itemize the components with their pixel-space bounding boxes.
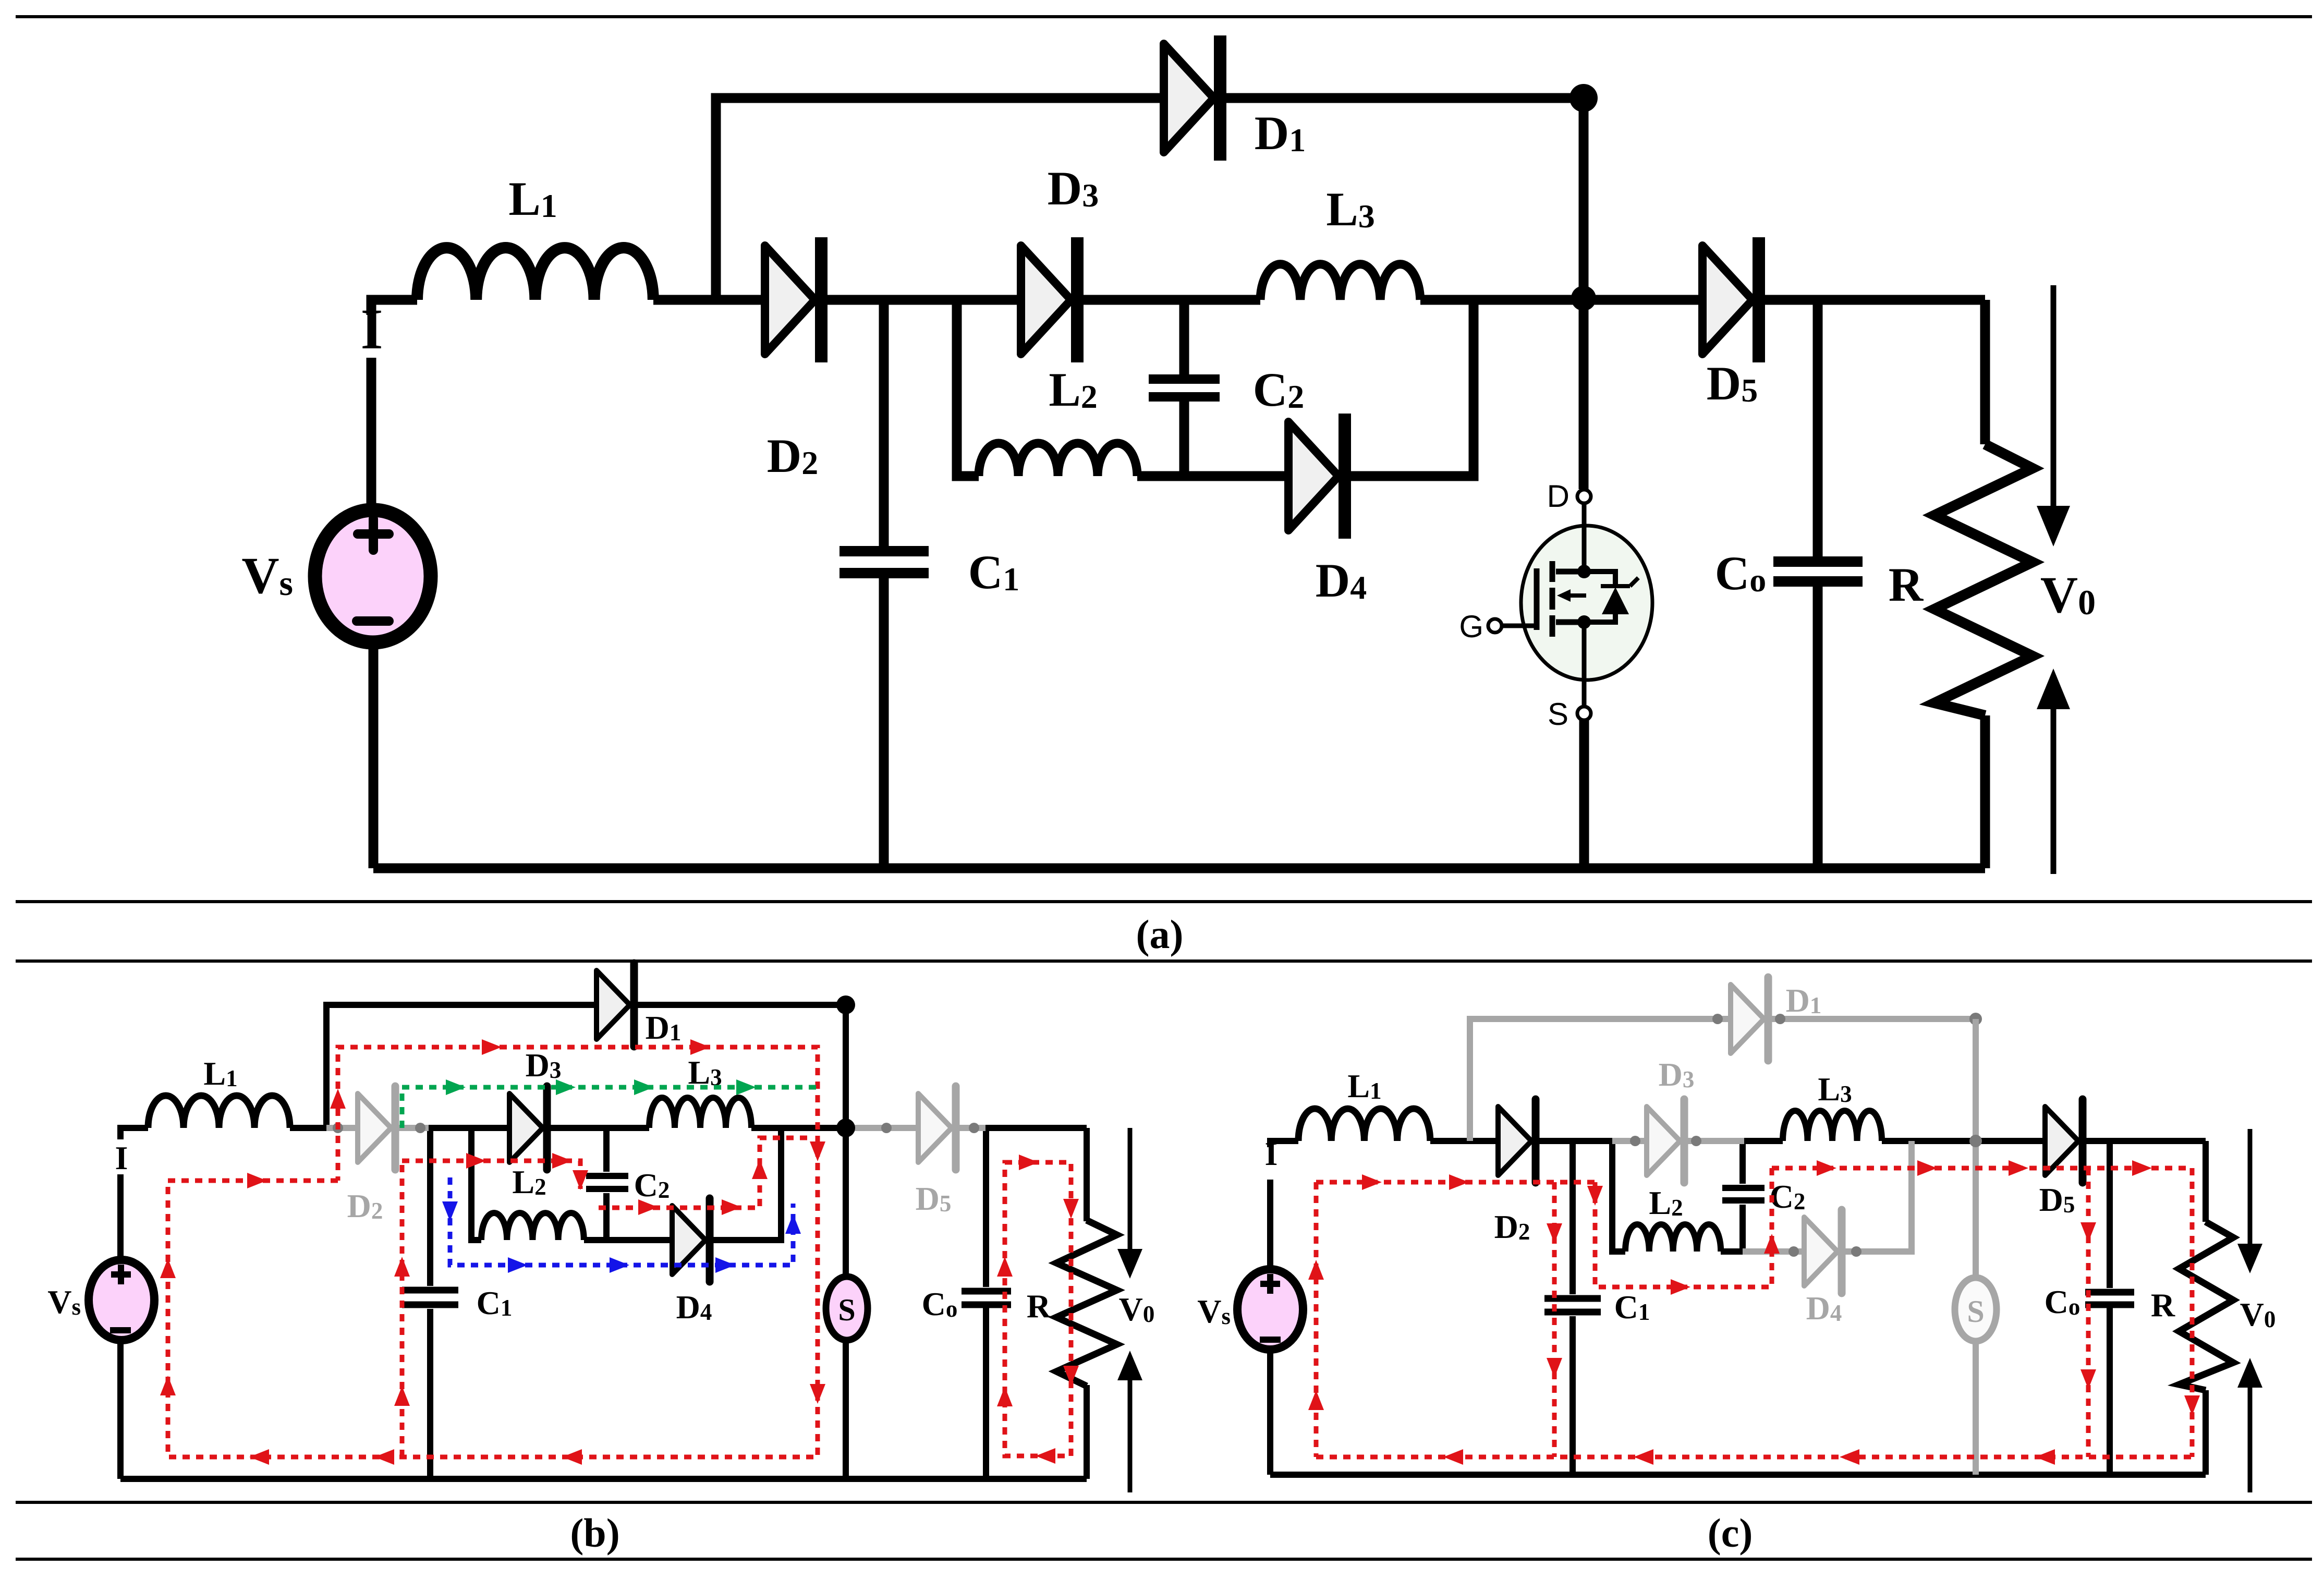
wire drop to L2 c bbox=[1612, 1141, 1625, 1252]
diode D5 c bbox=[2045, 1099, 2083, 1183]
svg-text:L1: L1 bbox=[203, 1055, 237, 1092]
wire D5 to R corner c bbox=[2080, 1138, 2206, 1144]
svg-text:R: R bbox=[1889, 558, 1924, 611]
svg-text:(a): (a) bbox=[1136, 912, 1184, 957]
svg-text:L3: L3 bbox=[1818, 1071, 1852, 1108]
wire switch lower b bbox=[843, 1337, 849, 1479]
current loop red L2-C2 c bbox=[1595, 1168, 1772, 1287]
capacitor C2 b bbox=[586, 1176, 628, 1189]
diode D2 bbox=[765, 237, 821, 362]
svg-text:V0: V0 bbox=[1119, 1291, 1155, 1328]
wire L1 to D3 (through D2) bbox=[653, 295, 1021, 305]
inductor L3 b bbox=[649, 1098, 751, 1128]
arrow V0 up b bbox=[1117, 1351, 1142, 1492]
wire C2 lower c bbox=[1739, 1205, 1746, 1252]
node junction top bbox=[1569, 84, 1598, 112]
svg-text:Vs: Vs bbox=[1197, 1293, 1231, 1330]
svg-text:C1: C1 bbox=[477, 1284, 513, 1321]
wire Co lower c bbox=[2107, 1308, 2113, 1475]
node top junction b bbox=[836, 995, 855, 1014]
wire grey D2 segment b bbox=[326, 1125, 429, 1131]
capacitor C1 c bbox=[1544, 1298, 1601, 1312]
wire R lower lead b bbox=[1084, 1385, 1090, 1479]
current loop red input c bbox=[1316, 1182, 2192, 1457]
node grey main junction c bbox=[1969, 1135, 1982, 1147]
wire C1 upper bbox=[879, 300, 889, 546]
wire L3 to R branch (through D5) bbox=[1420, 295, 1985, 305]
inductor L3 c bbox=[1783, 1111, 1882, 1141]
wire riser to D1 rail b bbox=[326, 1005, 846, 1128]
arrow V0 down c bbox=[2237, 1129, 2262, 1273]
wire L2 to C2 c bbox=[1721, 1248, 1743, 1255]
svg-text:D4: D4 bbox=[676, 1289, 712, 1326]
svg-text:L2: L2 bbox=[1649, 1184, 1683, 1221]
svg-text:D4: D4 bbox=[1316, 554, 1367, 607]
svg-text:L1: L1 bbox=[1347, 1067, 1381, 1104]
wire Vs bottom bbox=[369, 642, 379, 868]
wire L1 to D2 and grey node c bbox=[1430, 1138, 1612, 1144]
diode D1 b bbox=[597, 963, 634, 1047]
svg-text:Vs: Vs bbox=[47, 1283, 81, 1320]
wire grey D5 segment b bbox=[850, 1125, 985, 1131]
svg-text:(c): (c) bbox=[1708, 1510, 1753, 1556]
wire Vs bottom b bbox=[117, 1339, 124, 1479]
wire L2 branch down bbox=[957, 300, 979, 476]
wire Vs bottom c bbox=[1267, 1349, 1273, 1475]
wire C2 lower b bbox=[603, 1193, 610, 1240]
inductor L2 bbox=[979, 443, 1137, 476]
arrow V0 down bbox=[2037, 285, 2070, 546]
wire grey D3 segment c bbox=[1612, 1138, 1744, 1144]
svg-text:Co: Co bbox=[1715, 546, 1766, 600]
node mid junction b bbox=[836, 1119, 855, 1137]
wire I stub b bbox=[120, 1128, 148, 1139]
diode D3 b bbox=[509, 1086, 547, 1170]
capacitor C1 bbox=[839, 551, 929, 573]
svg-text:D: D bbox=[1547, 479, 1569, 514]
diode D1 bbox=[1164, 35, 1220, 161]
svg-text:G: G bbox=[1459, 609, 1483, 644]
svg-text:D3: D3 bbox=[1659, 1056, 1695, 1093]
wire switch upper b bbox=[843, 1128, 849, 1279]
diode D4 b bbox=[672, 1198, 710, 1282]
svg-text:L3: L3 bbox=[1326, 183, 1374, 236]
svg-text:L2: L2 bbox=[1049, 363, 1097, 416]
current loop red C1 b bbox=[400, 1161, 405, 1457]
wire R lower lead c bbox=[2203, 1390, 2209, 1475]
wire C2 upper bbox=[1179, 300, 1189, 374]
bottom rail bbox=[373, 864, 1985, 873]
wire L2 to D4 loop up bbox=[1137, 300, 1474, 476]
svg-text:(b): (b) bbox=[570, 1510, 619, 1556]
resistor R bbox=[1934, 444, 2033, 715]
wire I to Vs bbox=[367, 358, 376, 504]
wire C2 lower bbox=[1179, 401, 1189, 476]
wire R upper lead b bbox=[1084, 1128, 1090, 1221]
svg-text:C2: C2 bbox=[1253, 363, 1304, 416]
inductor L3 bbox=[1260, 264, 1420, 300]
wire I to Vs c bbox=[1267, 1180, 1273, 1270]
wire L3 to D5 c bbox=[1882, 1138, 2045, 1144]
current loop red main b bbox=[168, 1047, 818, 1457]
svg-text:C1: C1 bbox=[968, 545, 1019, 599]
switch S b bbox=[826, 1277, 868, 1340]
svg-text:I: I bbox=[361, 297, 383, 361]
wire C2 upper c bbox=[1739, 1141, 1746, 1184]
wire L2 branch b bbox=[471, 1128, 481, 1240]
wire D5 out to R corner b bbox=[982, 1125, 1087, 1131]
svg-text:C2: C2 bbox=[634, 1167, 670, 1204]
diode D1 greyed c bbox=[1712, 977, 1982, 1061]
wire Co upper b bbox=[983, 1128, 989, 1287]
svg-text:D5: D5 bbox=[2039, 1181, 2075, 1218]
inductor L1 c bbox=[1298, 1109, 1430, 1141]
wire node to MOSFET drain bbox=[1579, 98, 1589, 489]
capacitor Co c bbox=[2085, 1292, 2134, 1305]
wire C2 upper b bbox=[603, 1128, 610, 1172]
source Vs bbox=[315, 510, 431, 642]
svg-text:D1: D1 bbox=[1786, 982, 1822, 1019]
wire grey switch branch c bbox=[1973, 1019, 1979, 1475]
wire D2 out to L3 b bbox=[427, 1125, 649, 1131]
current loop red output c bbox=[1772, 1168, 2192, 1457]
diode D5 greyed b bbox=[881, 1086, 979, 1170]
node junction mid bbox=[1571, 286, 1596, 311]
svg-text:D5: D5 bbox=[1707, 357, 1758, 410]
wire I stub c bbox=[1270, 1141, 1298, 1147]
svg-text:I: I bbox=[115, 1139, 128, 1176]
arrow V0 down b bbox=[1117, 1128, 1142, 1279]
wire Co upper bbox=[1813, 300, 1823, 557]
capacitor C2 c bbox=[1722, 1188, 1765, 1200]
svg-text:D3: D3 bbox=[526, 1047, 562, 1084]
switch S greyed c bbox=[1955, 1278, 1997, 1341]
svg-text:L2: L2 bbox=[512, 1163, 546, 1200]
bottom rail c bbox=[1270, 1472, 2206, 1478]
inductor L2 b bbox=[481, 1213, 584, 1240]
source Vs b bbox=[89, 1260, 154, 1340]
svg-text:D2: D2 bbox=[347, 1187, 383, 1224]
wire L3 to junction b bbox=[751, 1125, 853, 1131]
svg-text:V0: V0 bbox=[2040, 566, 2096, 624]
svg-text:R: R bbox=[1027, 1288, 1051, 1325]
wire L1 right to riser b bbox=[290, 1125, 328, 1131]
wire Co upper c bbox=[2107, 1141, 2113, 1288]
wire D3 to L3 bbox=[1072, 295, 1260, 305]
inductor L1 bbox=[417, 248, 653, 300]
wire MOSFET source to rail bbox=[1579, 720, 1589, 868]
svg-text:L1: L1 bbox=[508, 172, 557, 225]
wire C1 upper c bbox=[1569, 1141, 1576, 1294]
capacitor C2 bbox=[1149, 379, 1220, 397]
wire C1 lower b bbox=[427, 1309, 433, 1479]
wire I stub bbox=[371, 300, 417, 315]
inductor L2 c bbox=[1625, 1224, 1721, 1252]
svg-text:V0: V0 bbox=[2240, 1296, 2276, 1333]
wire C1 lower c bbox=[1569, 1316, 1576, 1475]
wire grey riser and D1 rail c bbox=[1470, 1019, 1976, 1141]
source Vs c bbox=[1237, 1269, 1303, 1350]
svg-text:D2: D2 bbox=[1494, 1208, 1530, 1245]
current loop red output b bbox=[1005, 1162, 1071, 1456]
diode D2 c bbox=[1498, 1099, 1536, 1183]
arrow V0 up bbox=[2037, 669, 2070, 874]
svg-text:S: S bbox=[838, 1293, 855, 1327]
wire branch up to D1 rail bbox=[716, 98, 1584, 300]
svg-text:D3: D3 bbox=[1048, 162, 1099, 215]
wire Co lower bbox=[1813, 586, 1823, 868]
current loop green b bbox=[402, 1087, 820, 1128]
svg-text:D1: D1 bbox=[1255, 106, 1306, 160]
current loop red C2-D4 b bbox=[402, 1138, 813, 1208]
capacitor Co bbox=[1773, 562, 1863, 581]
diode D5 bbox=[1702, 237, 1759, 362]
inductor L1 b bbox=[148, 1096, 290, 1128]
svg-text:S: S bbox=[1967, 1294, 1984, 1329]
svg-text:C2: C2 bbox=[1770, 1178, 1806, 1215]
svg-text:Vs: Vs bbox=[241, 546, 293, 604]
diode D4 bbox=[1288, 414, 1345, 539]
wire R upper lead c bbox=[2203, 1141, 2209, 1222]
svg-text:D4: D4 bbox=[1806, 1290, 1842, 1327]
wire junction drop b bbox=[843, 1005, 849, 1128]
wire I to Vs b bbox=[117, 1174, 124, 1261]
wire Co lower b bbox=[983, 1308, 989, 1479]
wire C1 upper b bbox=[427, 1128, 433, 1286]
wire C1 lower bbox=[879, 578, 889, 868]
svg-text:D1: D1 bbox=[646, 1009, 682, 1046]
capacitor Co b bbox=[962, 1291, 1011, 1305]
svg-text:Co: Co bbox=[922, 1285, 958, 1322]
svg-text:D2: D2 bbox=[767, 429, 818, 482]
arrow V0 up c bbox=[2237, 1358, 2262, 1492]
transistor S (MOSFET) bbox=[1488, 490, 1652, 720]
wire R lower lead bbox=[1980, 715, 1990, 868]
diode D2 greyed b bbox=[333, 1086, 425, 1170]
capacitor C1 b bbox=[402, 1290, 458, 1305]
diode D3 greyed c bbox=[1630, 1099, 1701, 1183]
resistor R b bbox=[1056, 1220, 1117, 1386]
svg-text:D5: D5 bbox=[916, 1180, 952, 1217]
svg-text:S: S bbox=[1548, 697, 1568, 732]
current loop blue b bbox=[450, 1177, 793, 1265]
wire R upper lead bbox=[1980, 300, 1990, 444]
wire L2 to D4 riser b bbox=[584, 1128, 781, 1240]
resistor R c bbox=[2179, 1222, 2233, 1390]
diode D3 bbox=[1021, 237, 1077, 362]
wire grey D4 branch c bbox=[1743, 1141, 1912, 1252]
wire C2 to L3 c bbox=[1743, 1138, 1783, 1144]
diode D4 greyed c bbox=[1788, 1210, 1861, 1293]
svg-text:R: R bbox=[2151, 1286, 2175, 1323]
svg-text:I: I bbox=[1265, 1135, 1278, 1172]
svg-text:C1: C1 bbox=[1614, 1289, 1650, 1326]
bottom rail b bbox=[120, 1476, 1087, 1482]
svg-text:Co: Co bbox=[2045, 1283, 2080, 1320]
